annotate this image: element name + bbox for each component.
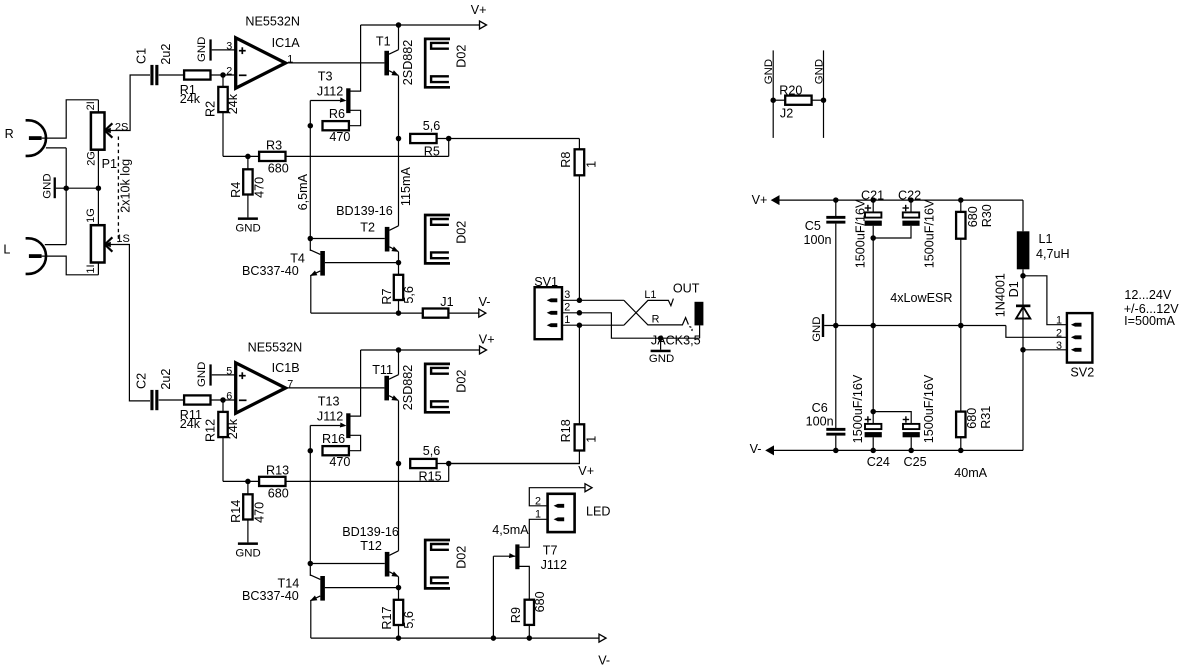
capacitor C24 1500uF/16V bbox=[851, 326, 890, 470]
package D02 of T1 bbox=[425, 39, 468, 87]
svg-text:1500uF/16V: 1500uF/16V bbox=[854, 199, 868, 268]
svg-text:5: 5 bbox=[226, 365, 232, 377]
node junction R30 gnd bbox=[958, 323, 964, 329]
resistor R17 5,6 bbox=[380, 600, 416, 630]
transistor T4 BC337-40 bbox=[242, 239, 325, 279]
svg-text:T13: T13 bbox=[318, 394, 340, 408]
svg-text:GND: GND bbox=[235, 223, 260, 235]
wire gnd stub left bbox=[772, 50, 774, 137]
wire R15 right bbox=[437, 463, 580, 465]
wire SV1 pin1 bbox=[562, 324, 579, 326]
svg-text:4,7uH: 4,7uH bbox=[1036, 247, 1070, 261]
wire T3 source to R6 bbox=[349, 110, 361, 125]
node junction pot mid bbox=[96, 185, 102, 191]
wire T3 gate bbox=[310, 100, 340, 102]
svg-text:3: 3 bbox=[1056, 340, 1062, 352]
resistor R14 470 bbox=[229, 494, 267, 523]
svg-text:470: 470 bbox=[329, 455, 350, 469]
wire pot1 bottom to pot2 top bbox=[97, 150, 99, 226]
transistor T2 BD139-16 bbox=[336, 204, 399, 252]
node junction gnd bus bbox=[63, 185, 69, 191]
wire R17 top bbox=[398, 588, 400, 600]
label OUT bbox=[673, 281, 700, 295]
wire T2 collector up bbox=[398, 139, 400, 226]
svg-text:D1: D1 bbox=[1007, 281, 1021, 297]
svg-text:3: 3 bbox=[226, 40, 232, 52]
svg-text:24k: 24k bbox=[180, 417, 201, 431]
potentiometer P1 section a (2) bbox=[85, 101, 128, 171]
svg-text:1S: 1S bbox=[116, 233, 129, 245]
wire T14 base bbox=[325, 587, 399, 589]
transistor T7 J112 bbox=[509, 543, 567, 572]
node junction R1/R2 bbox=[220, 72, 226, 78]
power V+ arrow A bbox=[471, 3, 487, 29]
node junction C21/C22 bottom bbox=[870, 235, 876, 241]
svg-text:L1: L1 bbox=[1039, 232, 1053, 246]
wire T2 emitter down bbox=[398, 252, 400, 263]
svg-text:2u2: 2u2 bbox=[159, 369, 173, 390]
wire V+ down to L1 bbox=[1022, 200, 1024, 231]
svg-text:JACK3,5: JACK3,5 bbox=[651, 334, 701, 348]
node junction R5 left bbox=[396, 136, 402, 142]
wire pin1 to jack cross bbox=[579, 324, 624, 326]
node junction sleeve gnd bbox=[658, 335, 664, 341]
svg-text:2: 2 bbox=[226, 65, 232, 77]
node junction R20 left bbox=[770, 97, 776, 103]
resistor R30 680 bbox=[956, 200, 994, 325]
wire T12 emitter down bbox=[398, 577, 400, 588]
svg-text:J112: J112 bbox=[317, 84, 343, 98]
power V+ arrow B bbox=[479, 333, 495, 354]
node junction R31 vminus bbox=[958, 448, 964, 454]
svg-text:P1: P1 bbox=[102, 157, 117, 171]
svg-text:1: 1 bbox=[584, 161, 598, 168]
node junction R16 left bbox=[308, 448, 314, 454]
node junction R9 rail bbox=[527, 635, 533, 641]
ground GND at jack bbox=[649, 338, 674, 365]
wire to SV2 pin3 bbox=[1023, 349, 1067, 351]
svg-text:115mA: 115mA bbox=[399, 167, 413, 207]
svg-text:R18: R18 bbox=[559, 419, 573, 442]
svg-text:R31: R31 bbox=[979, 406, 993, 429]
svg-text:T12: T12 bbox=[360, 539, 382, 553]
wire jack crossover a bbox=[624, 299, 674, 326]
wire T11 collector to V+ rail bbox=[398, 350, 400, 375]
svg-text:R: R bbox=[652, 314, 660, 326]
svg-text:470: 470 bbox=[253, 177, 267, 198]
resistor R20 jumper J2 bbox=[773, 83, 823, 120]
resistor R1 24k bbox=[180, 70, 211, 106]
wire R12 top bbox=[222, 400, 224, 412]
svg-text:J112: J112 bbox=[541, 558, 567, 572]
svg-text:R30: R30 bbox=[980, 204, 994, 227]
resistor R18 1 bbox=[559, 419, 599, 450]
svg-text:GND: GND bbox=[811, 316, 823, 341]
svg-text:2I: 2I bbox=[85, 101, 97, 110]
svg-text:1I: 1I bbox=[85, 264, 97, 273]
wire L signal bbox=[42, 256, 99, 275]
svg-text:V-: V- bbox=[750, 442, 762, 456]
connector R (cinch input right channel) bbox=[5, 120, 46, 156]
wire L1 bottom bbox=[1022, 269, 1024, 350]
wire gnd stub right bbox=[823, 50, 825, 137]
svg-text:R14: R14 bbox=[229, 500, 243, 523]
svg-text:V-: V- bbox=[598, 654, 610, 667]
node junction T12e/T14b bbox=[396, 585, 402, 591]
svg-text:R17: R17 bbox=[380, 606, 394, 629]
node junction C22 top bbox=[908, 197, 914, 203]
wire T14c junction to T12 base bbox=[310, 563, 385, 565]
node junction pin2 bbox=[577, 310, 583, 316]
label L1 jack bbox=[644, 289, 656, 301]
label 115mA bbox=[399, 167, 413, 207]
svg-text:V+: V+ bbox=[471, 3, 487, 17]
wire opamp B output bbox=[286, 387, 385, 389]
node junction R6 left bbox=[308, 123, 314, 129]
svg-text:4xLowESR: 4xLowESR bbox=[890, 291, 952, 305]
node junction T4 collector bbox=[308, 236, 314, 242]
wire to J1 bbox=[399, 312, 423, 314]
svg-text:GND: GND bbox=[196, 362, 208, 387]
svg-text:J2: J2 bbox=[780, 107, 793, 121]
wire C2 to R11 bbox=[159, 399, 185, 401]
jack JACK3,5 body bbox=[695, 302, 704, 338]
wire pot1 wiper to C1 bbox=[105, 75, 150, 131]
wire T4c junction to T2 base bbox=[310, 238, 385, 240]
resistor R16 470 bbox=[322, 432, 350, 469]
resistor R4 470 bbox=[229, 169, 267, 198]
svg-text:680: 680 bbox=[966, 206, 980, 227]
transistor T12 BD139-16 bbox=[342, 525, 399, 577]
wire R4 top bbox=[247, 156, 249, 169]
svg-text:1N4001: 1N4001 bbox=[993, 273, 1007, 317]
node junction C6 vminus bbox=[833, 448, 839, 454]
label GND right bbox=[813, 59, 825, 84]
svg-text:5,6: 5,6 bbox=[402, 286, 416, 304]
wire R shield to gnd bus bbox=[46, 147, 66, 149]
wire LED pin1 to T7 drain bbox=[520, 519, 548, 547]
node junction T7 gate rail bbox=[491, 635, 497, 641]
wire T13 source to R16 bbox=[349, 435, 361, 450]
node junction L1/D1 bbox=[1020, 273, 1026, 279]
svg-text:R3: R3 bbox=[266, 138, 282, 152]
ground GND at R4 bbox=[235, 217, 260, 234]
wire R3 to R5 junction bbox=[286, 155, 449, 157]
svg-text:R16: R16 bbox=[322, 432, 345, 446]
wire T13 drain to V+ bbox=[351, 350, 361, 416]
svg-text:7: 7 bbox=[287, 379, 293, 391]
wire T1 collector to V+ rail bbox=[398, 25, 400, 50]
svg-text:D02: D02 bbox=[454, 45, 468, 68]
wire R9 bottom bbox=[528, 625, 530, 638]
capacitor C22 1500uF/16V bbox=[873, 188, 936, 268]
svg-text:C2: C2 bbox=[135, 373, 149, 389]
wire SV1 pin2 bbox=[562, 312, 579, 314]
svg-text:BD139-16: BD139-16 bbox=[336, 204, 393, 218]
svg-text:SV2: SV2 bbox=[1070, 366, 1094, 380]
wire gnd bus vertical bbox=[65, 148, 67, 245]
transistor T11 2SD882 bbox=[372, 363, 415, 410]
svg-text:D02: D02 bbox=[454, 221, 468, 244]
svg-text:2: 2 bbox=[1056, 327, 1062, 339]
label +/-6...12V bbox=[1124, 302, 1180, 316]
svg-text:R8: R8 bbox=[559, 152, 573, 168]
node junction pin1 bbox=[577, 322, 583, 328]
node junction R7 bottom bbox=[396, 310, 402, 316]
wire T7 source bbox=[520, 566, 530, 600]
svg-text:V+: V+ bbox=[479, 333, 495, 347]
svg-text:R: R bbox=[5, 127, 14, 141]
svg-text:100n: 100n bbox=[804, 233, 832, 247]
svg-text:680: 680 bbox=[268, 162, 289, 176]
wire C1 to R1 bbox=[159, 74, 185, 76]
resistor R12 24k bbox=[203, 412, 240, 442]
wire R5 right bbox=[437, 138, 580, 140]
node junction pin3 bbox=[577, 298, 583, 304]
svg-text:2S: 2S bbox=[115, 121, 128, 133]
svg-text:GND: GND bbox=[196, 37, 208, 62]
transistor T13 J112 bbox=[317, 394, 351, 438]
wire SV1 pin3 bbox=[562, 299, 579, 301]
label 40mA bbox=[954, 466, 987, 480]
wire R signal to pot top bbox=[42, 100, 99, 138]
node junction T14 collector bbox=[308, 561, 314, 567]
svg-text:680: 680 bbox=[268, 487, 289, 501]
resistor R3 680 bbox=[259, 138, 289, 175]
svg-text:5,6: 5,6 bbox=[402, 611, 416, 629]
wire jack crossover b bbox=[624, 300, 689, 325]
ground GND (input bus) bbox=[41, 173, 66, 198]
svg-text:GND: GND bbox=[41, 173, 53, 198]
resistor R2 24k bbox=[203, 87, 240, 117]
svg-text:40mA: 40mA bbox=[954, 466, 987, 480]
wire T7 gate bbox=[493, 555, 515, 557]
connector LED bbox=[535, 494, 611, 532]
capacitor C5 100n bbox=[804, 200, 846, 325]
wire R17 bottom bbox=[398, 625, 400, 638]
package D02 of T2 bbox=[425, 215, 468, 263]
jumper J1 bbox=[423, 295, 454, 318]
wire GND rail PSU bbox=[824, 325, 1006, 327]
wire R13 to R15 junction bbox=[286, 480, 449, 482]
capacitor C6 100n bbox=[806, 326, 846, 451]
wire T4e to R7 bottom bbox=[311, 312, 399, 314]
svg-text:D02: D02 bbox=[454, 546, 468, 569]
svg-text:2u2: 2u2 bbox=[159, 44, 173, 65]
svg-text:T1: T1 bbox=[376, 34, 391, 48]
svg-text:GND: GND bbox=[813, 59, 825, 84]
label I=500mA bbox=[1124, 314, 1175, 328]
wire junction down to R3 line bbox=[448, 139, 450, 157]
svg-text:12...24V: 12...24V bbox=[1124, 288, 1172, 302]
wire V+ rail A bbox=[361, 24, 480, 26]
wire T11 emitter down bbox=[398, 401, 400, 464]
node junction R17 bottom bbox=[396, 635, 402, 641]
svg-text:R2: R2 bbox=[203, 101, 217, 117]
node junction R5/R3 bbox=[446, 136, 452, 142]
transistor T1 2SD882 bbox=[376, 34, 415, 85]
svg-text:R12: R12 bbox=[203, 419, 217, 442]
wire V- rail PSU bbox=[773, 449, 1023, 451]
wire L1 junction to SV2 pin1 bbox=[1023, 276, 1067, 325]
svg-text:6,5mA: 6,5mA bbox=[296, 173, 310, 210]
resistor R6 470 bbox=[323, 107, 351, 144]
svg-text:C5: C5 bbox=[805, 219, 821, 233]
resistor R31 680 bbox=[956, 326, 993, 451]
wire R13 line bbox=[223, 480, 259, 482]
transistor T3 J112 bbox=[317, 69, 351, 113]
transistor T14 BC337-40 bbox=[242, 564, 325, 604]
svg-text:NE5532N: NE5532N bbox=[248, 341, 303, 355]
ground GND at pin5 bbox=[196, 362, 236, 387]
svg-text:680: 680 bbox=[533, 591, 547, 612]
svg-text:R7: R7 bbox=[380, 288, 394, 304]
svg-text:BD139-16: BD139-16 bbox=[342, 525, 399, 539]
wire R14 top bbox=[247, 481, 249, 494]
wire sleeve to pin2 bbox=[579, 313, 699, 338]
op-amp IC1A bbox=[226, 14, 300, 88]
wire R14 bottom bbox=[247, 520, 249, 543]
svg-text:T3: T3 bbox=[318, 69, 333, 83]
wire gnd bus to pot mid bbox=[66, 187, 98, 189]
wire T4 emitter down bbox=[310, 276, 312, 313]
label GND left bbox=[763, 59, 775, 84]
wire T3 drain to V+ bbox=[351, 25, 361, 91]
svg-text:1: 1 bbox=[287, 54, 293, 66]
inductor L1 4,7uH bbox=[1017, 231, 1070, 269]
op-amp IC1B bbox=[226, 341, 302, 414]
wire R2 top bbox=[222, 75, 224, 87]
ground GND at R14 bbox=[235, 542, 260, 559]
svg-text:R9: R9 bbox=[509, 607, 523, 623]
svg-text:GND: GND bbox=[649, 353, 674, 365]
capacitor C2 2u2 bbox=[135, 369, 173, 411]
wire V+ rail B bbox=[361, 349, 480, 351]
node junction R13/R14 bbox=[245, 479, 251, 485]
label 6,5mA bbox=[296, 173, 310, 210]
node junction R30 top bbox=[958, 197, 964, 203]
node junction R11/R12 bbox=[220, 397, 226, 403]
svg-text:GND: GND bbox=[763, 59, 775, 84]
svg-text:I=500mA: I=500mA bbox=[1124, 314, 1175, 328]
svg-text:1: 1 bbox=[584, 436, 598, 443]
svg-text:C25: C25 bbox=[904, 455, 927, 469]
svg-text:2SD882: 2SD882 bbox=[401, 40, 415, 86]
svg-text:R20: R20 bbox=[779, 83, 802, 97]
svg-text:GND: GND bbox=[235, 548, 260, 560]
svg-text:OUT: OUT bbox=[673, 281, 700, 295]
svg-text:V+: V+ bbox=[578, 464, 594, 478]
svg-text:D02: D02 bbox=[454, 370, 468, 393]
svg-text:IC1B: IC1B bbox=[272, 361, 300, 375]
svg-text:SV1: SV1 bbox=[534, 275, 558, 289]
svg-text:1: 1 bbox=[1056, 315, 1062, 327]
node junction T2e/T4b bbox=[396, 260, 402, 266]
node junction C5 top bbox=[833, 197, 839, 203]
svg-text:1500uF/16V: 1500uF/16V bbox=[851, 374, 865, 443]
wire R4 bottom bbox=[247, 195, 249, 218]
svg-text:LED: LED bbox=[586, 505, 611, 519]
svg-text:24k: 24k bbox=[226, 93, 240, 114]
resistor R15 5,6 bbox=[410, 444, 441, 483]
wire opamp output bbox=[286, 62, 385, 64]
node junction R3/R4 bbox=[245, 154, 251, 160]
svg-text:IC1A: IC1A bbox=[272, 36, 301, 50]
svg-text:100n: 100n bbox=[806, 414, 834, 428]
node junction V+ rail B bbox=[396, 347, 402, 353]
wire pot2 bottom pin bbox=[97, 263, 99, 275]
wire gnd to SV2 pin2 bbox=[1006, 326, 1067, 338]
svg-text:1: 1 bbox=[535, 508, 541, 520]
node junction C21 gnd bbox=[870, 323, 876, 329]
svg-text:BC337-40: BC337-40 bbox=[242, 264, 299, 278]
power V+ arrow PSU bbox=[752, 193, 779, 207]
wire pin3 to jack cross bbox=[579, 299, 624, 301]
svg-text:C6: C6 bbox=[812, 401, 828, 415]
svg-text:3: 3 bbox=[564, 289, 570, 301]
svg-text:2SD882: 2SD882 bbox=[401, 365, 415, 411]
svg-text:2x10k log: 2x10k log bbox=[118, 159, 132, 213]
wire LED pin2 to V+ bbox=[529, 488, 585, 506]
wire D1 down bbox=[1022, 350, 1024, 451]
wire T3 gate down bus bbox=[309, 101, 311, 239]
connector SV1 bbox=[534, 275, 570, 339]
capacitor C1 2u2 bbox=[135, 44, 173, 86]
svg-text:1500uF/16V: 1500uF/16V bbox=[922, 199, 936, 268]
gang dashed line P1 bbox=[118, 137, 132, 243]
svg-text:6: 6 bbox=[226, 390, 232, 402]
connector SV2 bbox=[1056, 313, 1094, 380]
package D02 of T11 bbox=[425, 364, 468, 412]
node junction C21 top bbox=[870, 197, 876, 203]
svg-text:NE5532N: NE5532N bbox=[245, 14, 300, 28]
node junction C24 top bbox=[870, 409, 876, 415]
svg-text:L: L bbox=[3, 242, 10, 256]
wire L shield to gnd bus bbox=[45, 244, 66, 246]
node junction R15/R13 bbox=[446, 461, 452, 467]
ground GND PSU bbox=[811, 314, 824, 342]
jack sleeve contact bbox=[689, 327, 692, 332]
svg-text:C24: C24 bbox=[867, 455, 890, 469]
label JACK3,5 bbox=[651, 334, 701, 348]
wire R1 to pin2 bbox=[211, 74, 236, 76]
node junction R20 right bbox=[821, 97, 827, 103]
svg-text:V-: V- bbox=[479, 295, 491, 309]
resistor R9 680 bbox=[509, 591, 547, 625]
wire junction down to R13 line bbox=[448, 464, 450, 482]
label R jack bbox=[652, 314, 660, 326]
diode D1 1N4001 bbox=[993, 273, 1030, 318]
wire SV1 pin1 to R18 bbox=[578, 325, 580, 424]
node junction C5 gnd bbox=[833, 323, 839, 329]
wire V+ rail PSU bbox=[779, 199, 1024, 201]
wire R7 top bbox=[398, 263, 400, 275]
connector L (cinch input left channel) bbox=[3, 238, 46, 274]
wire R12 bottom bbox=[222, 437, 224, 481]
wire T13 gate bbox=[310, 425, 340, 427]
svg-text:1: 1 bbox=[564, 314, 570, 326]
svg-text:V+: V+ bbox=[752, 193, 768, 207]
svg-text:J112: J112 bbox=[317, 409, 343, 423]
svg-text:470: 470 bbox=[329, 130, 350, 144]
svg-text:1500uF/16V: 1500uF/16V bbox=[922, 374, 936, 443]
wire R7 bottom bbox=[398, 300, 400, 313]
node junction D1/SV2 pin3 bbox=[1020, 347, 1026, 353]
resistor R8 1 bbox=[559, 139, 599, 176]
label 4,5mA bbox=[492, 523, 529, 537]
svg-text:BC337-40: BC337-40 bbox=[242, 589, 299, 603]
resistor R13 680 bbox=[259, 463, 289, 500]
